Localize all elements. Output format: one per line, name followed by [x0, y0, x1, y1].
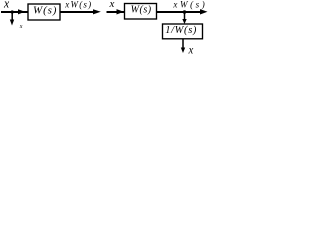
wire: right input horizontal	[107, 11, 125, 13]
arrowhead: left branch down	[10, 20, 14, 26]
svg-text:xW(s): xW(s)	[172, 0, 207, 10]
svg-text:x: x	[19, 24, 23, 30]
wire: left branch down	[11, 12, 13, 22]
svg-text:W(s): W(s)	[33, 4, 57, 16]
wire: left input horizontal	[1, 11, 28, 13]
arrowhead: branch output down	[181, 48, 185, 54]
svg-text:1/W(s): 1/W(s)	[165, 25, 197, 36]
block W1	[28, 4, 60, 20]
wire: right branch down to block 1/W(s)	[184, 12, 186, 21]
svg-text:W(s): W(s)	[131, 4, 152, 15]
node: right pickoff junction	[183, 10, 187, 14]
svg-text:x: x	[188, 43, 194, 57]
wire: left output horizontal	[60, 11, 95, 13]
arrowhead into block W1	[18, 9, 25, 14]
arrowhead into block 1/W(s)	[182, 19, 186, 24]
wire: branch output down	[182, 39, 184, 49]
svg-text:xW(s): xW(s)	[64, 0, 92, 9]
svg-text:x: x	[3, 0, 9, 11]
svg-text:x: x	[109, 0, 115, 10]
wire: right output horizontal	[157, 11, 202, 13]
arrowhead into block W2	[117, 9, 124, 14]
arrowhead: right output	[200, 9, 208, 14]
block W2	[125, 4, 157, 20]
node: left pickoff junction	[11, 10, 14, 13]
arrowhead: left output	[93, 9, 101, 14]
block 1/W(s)	[163, 24, 203, 39]
